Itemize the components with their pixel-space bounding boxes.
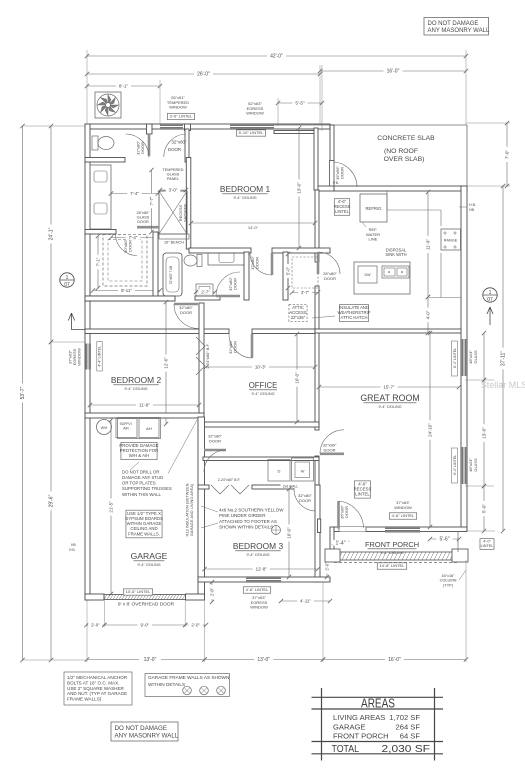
svg-text:D: D [278, 469, 281, 474]
svg-text:4'-4" LINTEL: 4'-4" LINTEL [98, 346, 102, 367]
dim 3-0 shower [160, 189, 186, 191]
svg-text:16'-0": 16'-0" [387, 69, 400, 75]
svg-text:DOOR: DOOR [233, 278, 238, 290]
office south wall [199, 422, 319, 427]
svg-text:(NO ROOF: (NO ROOF [384, 148, 418, 155]
svg-text:4'-6" LINTEL: 4'-6" LINTEL [246, 587, 269, 592]
label 4-4 lintel left [97, 342, 102, 372]
svg-text:AND NUT. (TYP AT GARAGE: AND NUT. (TYP AT GARAGE [67, 691, 127, 696]
svg-text:DOOR: DOOR [168, 147, 181, 152]
section marker left 1/07 [60, 273, 74, 287]
kitchen west wall upper [315, 190, 319, 262]
svg-text:ANY MASONRY WALL: ANY MASONRY WALL [428, 28, 490, 34]
label 10-6 lintel [123, 589, 152, 595]
svg-text:DOOR: DOOR [340, 167, 345, 179]
water heater circle [97, 420, 112, 435]
svg-text:HB: HB [469, 208, 475, 212]
svg-text:LINTEL: LINTEL [355, 492, 370, 497]
air handler box [139, 419, 159, 438]
wall below slab / kitchen north exterior wall [334, 186, 467, 191]
garage south wall left jamb [85, 594, 104, 600]
svg-text:FRONT PORCH: FRONT PORCH [365, 540, 419, 549]
svg-text:11'-9": 11'-9" [425, 239, 430, 250]
svg-text:LIVING AREAS: LIVING AREAS [333, 713, 385, 722]
dim 3-7 bath [196, 291, 215, 293]
svg-text:9'-4" CEILING: 9'-4" CEILING [124, 387, 147, 391]
svg-text:DOOR: DOOR [180, 310, 192, 315]
slab interior wall step [274, 131, 317, 134]
slab west wall with 36x96 door [330, 125, 334, 161]
window 37x63 egress bedroom3 [246, 577, 281, 582]
svg-text:A/H: A/H [146, 427, 152, 431]
svg-text:ANY MASONRY WALL: ANY MASONRY WALL [115, 733, 179, 740]
porch east edge [457, 531, 459, 552]
window 37x63 great room south [385, 527, 420, 532]
svg-text:2'-0": 2'-0" [91, 622, 100, 627]
svg-text:32"x80": 32"x80" [171, 140, 187, 145]
dim 5-0 right [483, 486, 485, 531]
svg-text:07: 07 [64, 282, 70, 288]
girder symbol circle [272, 526, 281, 535]
svg-text:3'-0": 3'-0" [169, 187, 178, 192]
36x96 door to slab leaf [330, 161, 335, 187]
svg-text:4'-6" LINTEL: 4'-6" LINTEL [392, 513, 415, 518]
svg-text:FRAME WALLS): FRAME WALLS) [67, 697, 102, 702]
dim 4-0 kitchen [427, 297, 429, 333]
svg-text:DOOR: DOOR [137, 220, 149, 224]
bedroom3 door leaf [315, 489, 318, 511]
dim 7-0 right slab [506, 123, 508, 186]
svg-text:DW: DW [365, 273, 372, 277]
svg-text:7'-7": 7'-7" [149, 196, 154, 205]
svg-text:HB: HB [71, 543, 76, 547]
svg-text:32"x60" TUB: 32"x60" TUB [169, 265, 173, 285]
note gypsum boards [126, 510, 162, 538]
hall south wall / bedroom3 north wall [198, 485, 209, 489]
svg-text:W/H: W/H [101, 426, 108, 430]
wall corner below slab door [317, 186, 334, 191]
svg-text:GARAGE: GARAGE [333, 722, 366, 731]
master bath north door arc [164, 134, 187, 157]
kitchen island [354, 262, 410, 294]
master bath tub [163, 253, 182, 296]
svg-text:DO NOT DAMAGE: DO NOT DAMAGE [115, 725, 168, 732]
vanity sink 1 [94, 171, 107, 182]
porch column right [452, 549, 468, 562]
svg-text:2-24"x80" B.F.: 2-24"x80" B.F. [218, 478, 241, 482]
dim 12-6 bedroom2 [165, 302, 167, 424]
porch slab dashed edge line [334, 562, 458, 564]
svg-text:DO NOT DRILL OR: DO NOT DRILL OR [122, 469, 159, 474]
WC toilet bowl [98, 137, 114, 150]
svg-text:BEDROOM 2: BEDROOM 2 [111, 375, 162, 385]
right exterior wall [461, 186, 467, 531]
bedroom2 door leaf [174, 303, 198, 306]
bedroom3 south wall [198, 577, 330, 582]
svg-text:LINE: LINE [369, 237, 378, 242]
dim 3-7 pantry [292, 292, 318, 294]
window 37x63 egress bedroom2 [86, 344, 91, 370]
svg-text:BOLTS AT 16" O.C. MAX.: BOLTS AT 16" O.C. MAX. [67, 680, 119, 685]
wall below great room door [315, 456, 319, 485]
svg-text:12'-8": 12'-8" [256, 566, 268, 571]
svg-text:264 SF: 264 SF [396, 722, 421, 731]
svg-text:DOOR: DOOR [128, 240, 133, 252]
WC door jamb stub [147, 124, 153, 134]
bedroom1 west wall [186, 158, 191, 250]
WC door leaf [148, 134, 151, 156]
pantry door 28x80 opening jamb [315, 286, 319, 333]
dim 21-5 garage [110, 420, 112, 594]
closet door leaf [137, 226, 159, 229]
leader damage protection [130, 462, 139, 470]
svg-text:7'-4": 7'-4" [129, 235, 138, 240]
office east wall / great room west wall [315, 329, 319, 430]
svg-text:5'-5": 5'-5" [295, 101, 305, 106]
outer wall top (master suite / bedroom 1) [85, 124, 330, 129]
svg-text:16" BENCH: 16" BENCH [164, 241, 184, 245]
svg-text:9'-4" CEILING: 9'-4" CEILING [233, 196, 256, 200]
dim 5-5 top [278, 102, 322, 104]
svg-text:37'-11": 37'-11" [501, 351, 507, 366]
areas table [312, 696, 444, 698]
svg-text:9'-4" CEILING: 9'-4" CEILING [251, 392, 274, 396]
svg-text:10'-0": 10'-0" [294, 372, 299, 384]
dim 13-0 bottom bedroom3 [205, 659, 324, 661]
svg-text:2,030 SF: 2,030 SF [382, 744, 431, 755]
front porch left wall [330, 527, 334, 554]
section marker right 1/07 [483, 288, 497, 302]
hall wall main horizontal [85, 329, 199, 334]
svg-text:9'-4" CEILING: 9'-4" CEILING [246, 553, 269, 557]
dim 15-7 great room [319, 386, 459, 388]
leader attic [312, 316, 335, 318]
dim 14-0 bedroom1 [191, 222, 315, 224]
master bath door jamb [185, 124, 191, 131]
great room north wall end [315, 329, 461, 333]
note box garage frame walls [145, 674, 230, 697]
garage overhead door hatched [104, 595, 186, 600]
svg-text:53'-7": 53'-7" [20, 386, 26, 399]
note box mechanical anchor bolts [64, 672, 132, 705]
dim 37-11 right [502, 186, 504, 531]
svg-text:LINTEL: LINTEL [335, 209, 350, 214]
svg-text:GLASS: GLASS [167, 173, 180, 177]
svg-text:6'-4" LINTEL: 6'-4" LINTEL [453, 348, 457, 368]
svg-text:22"x36": 22"x36" [291, 315, 306, 320]
foyer west wall [318, 519, 321, 533]
svg-text:7'-1": 7'-1" [95, 257, 100, 266]
svg-text:9'-4" CEILING: 9'-4" CEILING [380, 551, 403, 555]
svg-text:6'-4" LINTEL: 6'-4" LINTEL [453, 455, 457, 475]
svg-text:SHOWN WITHIN DETAILS: SHOWN WITHIN DETAILS [219, 524, 273, 529]
bifold closet office vertical [196, 337, 205, 375]
svg-text:ATTIC HATCH: ATTIC HATCH [340, 315, 367, 320]
bedroom3 door arc [294, 489, 316, 511]
svg-text:11'-8": 11'-8" [139, 402, 150, 407]
svg-text:5'-0": 5'-0" [482, 504, 487, 514]
great room hall door leaf [320, 452, 344, 455]
svg-text:16'-0": 16'-0" [388, 657, 401, 663]
svg-text:1'-4": 1'-4" [336, 541, 346, 547]
range [441, 229, 461, 250]
closet wall south [85, 296, 175, 301]
master bath north door leaf [186, 134, 189, 157]
svg-text:GLASS: GLASS [473, 458, 478, 472]
svg-text:PANEL: PANEL [167, 177, 179, 181]
svg-text:WINDOW: WINDOW [394, 505, 412, 510]
kitchen counter right edge [440, 253, 442, 298]
dim 4-11 bedroom3 window [281, 600, 330, 602]
svg-text:13'-0": 13'-0" [257, 657, 270, 663]
svg-text:WINDOW: WINDOW [77, 348, 82, 366]
bedroom1 entry door arc [250, 253, 272, 275]
svg-text:OFFICE: OFFICE [249, 381, 278, 390]
svg-text:10'-0": 10'-0" [286, 527, 291, 539]
svg-text:3'-6" LINTEL: 3'-6" LINTEL [170, 114, 193, 119]
svg-text:2'-7": 2'-7" [201, 289, 210, 294]
pantry west wall [283, 252, 288, 300]
svg-text:CONCRETE SLAB: CONCRETE SLAB [377, 135, 435, 142]
bath2 east wall [244, 252, 249, 300]
svg-text:9'-0": 9'-0" [140, 622, 149, 627]
svg-text:WITHIN DETAILS: WITHIN DETAILS [148, 682, 185, 687]
svg-text:14'-0": 14'-0" [248, 225, 259, 230]
svg-text:TOTAL: TOTAL [332, 744, 360, 755]
svg-text:2-24"x80" B.F.: 2-24"x80" B.F. [205, 343, 210, 368]
svg-text:8'-1": 8'-1" [119, 84, 129, 89]
closet east wall [153, 232, 158, 301]
extension lines right [466, 122, 510, 124]
vanity sink 2 [94, 203, 107, 214]
svg-text:W/H & A/H: W/H & A/H [129, 453, 150, 458]
dim 7-7 bath vertical [151, 170, 153, 232]
svg-text:WITHIN THIS WALL: WITHIN THIS WALL [122, 492, 162, 497]
bath2 south wall with door [195, 296, 220, 300]
svg-text:1: 1 [66, 275, 69, 281]
svg-text:9'-4" CEILING: 9'-4" CEILING [137, 563, 160, 567]
bedroom2 door arc [174, 304, 199, 329]
dim 5-6 porch [430, 538, 459, 540]
extension lines left [23, 125, 86, 127]
svg-text:TEMPERED: TEMPERED [162, 168, 183, 172]
porch column left [325, 549, 340, 562]
svg-text:AIR: AIR [123, 427, 129, 431]
dim 5-0 pantry [287, 254, 289, 288]
svg-text:GARAGE AND LIVING AREA): GARAGE AND LIVING AREA) [189, 483, 194, 536]
dim 11-9 kitchen [427, 192, 429, 297]
dim 7-4 bath [111, 237, 155, 239]
svg-text:GARAGE FRAME WALLS AS SHOWN: GARAGE FRAME WALLS AS SHOWN [148, 675, 229, 680]
svg-text:2'-0": 2'-0" [191, 622, 200, 627]
svg-text:5'-6": 5'-6" [440, 537, 450, 543]
svg-text:2'-8": 2'-8" [209, 587, 214, 596]
svg-text:BEDROOM 3: BEDROOM 3 [233, 541, 284, 551]
window 48x24 glass great room lower [461, 447, 467, 484]
svg-text:13'-0": 13'-0" [482, 427, 487, 439]
svg-text:1/2" MECHANICAL ANCHOR: 1/2" MECHANICAL ANCHOR [67, 675, 128, 680]
bath2 door arc [216, 272, 240, 296]
refrigerator [360, 194, 387, 222]
svg-text:5'-0": 5'-0" [285, 266, 290, 275]
bedroom2 east wall / office west wall [199, 303, 204, 427]
svg-text:DOOR: DOOR [209, 438, 221, 443]
svg-text:10'-6" LINTEL: 10'-6" LINTEL [126, 589, 152, 594]
dim 10-3 office [206, 366, 315, 368]
svg-text:13'-0": 13'-0" [296, 182, 301, 194]
island dishwasher [358, 266, 377, 283]
bedroom1 east wall [314, 128, 318, 190]
svg-text:H.B.: H.B. [469, 203, 476, 207]
leader girder left [201, 506, 218, 512]
shower enclosure [159, 191, 187, 234]
svg-text:DOOR: DOOR [299, 498, 311, 503]
shower bench [159, 234, 189, 239]
section marker left arrow [68, 313, 85, 330]
dim 24-10 great room [429, 333, 431, 527]
svg-text:1,702 SF: 1,702 SF [389, 713, 420, 722]
section marker right arrow [487, 307, 493, 325]
great room south wall [334, 527, 467, 532]
dim 29-6 left [50, 342, 52, 660]
svg-text:GLASS: GLASS [473, 350, 478, 364]
svg-text:4'-0": 4'-0" [483, 540, 491, 544]
svg-text:GREAT ROOM: GREAT ROOM [360, 393, 419, 403]
dim 11-8 bedroom2 [90, 404, 199, 406]
dim garage door 8-0 [104, 624, 185, 626]
svg-text:10'-3": 10'-3" [255, 364, 267, 369]
attic access dashed box [289, 304, 307, 321]
dim 16-0 bottom [323, 659, 466, 661]
closet north wall [85, 230, 116, 235]
supply air box [116, 419, 137, 438]
garage frame wall symbols [183, 686, 192, 695]
svg-text:DOOR: DOOR [324, 447, 336, 452]
svg-text:4x6 No.2 SOUTHERN YELLOW: 4x6 No.2 SOUTHERN YELLOW [219, 508, 284, 513]
svg-text:LINTEL: LINTEL [481, 544, 494, 548]
svg-text:REFRIG.: REFRIG. [366, 206, 383, 211]
pantry door arc [318, 252, 340, 274]
bedroom2 north wall [85, 296, 175, 301]
concrete slab outline [274, 124, 467, 126]
bath2 vanity counter [208, 249, 245, 265]
svg-text:2'-0": 2'-0" [324, 562, 329, 571]
svg-text:GARAGE: GARAGE [131, 551, 168, 561]
svg-text:28"x80": 28"x80" [136, 211, 150, 215]
dim 7-1 closet [97, 236, 99, 288]
svg-text:DOOR: DOOR [255, 257, 260, 269]
great room hall door arc [320, 430, 344, 454]
island sink double bowl [382, 266, 409, 278]
shower X line 1 [159, 191, 187, 234]
svg-text:24'-10": 24'-10" [427, 423, 432, 437]
office door arc [229, 334, 252, 358]
svg-text:FRAME WALLS.: FRAME WALLS. [128, 531, 160, 536]
label 6-4 lintel lower [452, 448, 458, 483]
svg-text:WINDOW: WINDOW [250, 605, 268, 610]
left exterior wall [85, 124, 90, 600]
garage entry door arc [204, 450, 226, 472]
WC toilet tank [92, 136, 98, 150]
dim garage door 2-0 b [185, 624, 206, 626]
svg-text:FRONT PORCH: FRONT PORCH [333, 732, 389, 741]
interior wall WC south [85, 158, 125, 163]
bedroom1 south wall [189, 248, 251, 253]
svg-text:OR TOP PLATES: OR TOP PLATES [122, 481, 156, 486]
dryer box [268, 460, 290, 482]
label 4-0 lintel porch [480, 539, 494, 550]
office door leaf [251, 334, 254, 358]
svg-text:7'-4": 7'-4" [130, 191, 139, 196]
dim 13-0 bottom garage [87, 659, 205, 661]
label egress window bedroom3 [243, 587, 270, 593]
window 26x51 tempered [160, 124, 183, 129]
pantry door leaf [317, 252, 320, 274]
dim 1-4 foyer [334, 542, 347, 544]
master vanity counter [90, 165, 111, 229]
kitchen counter top edge [386, 191, 388, 210]
svg-text:4'-0": 4'-0" [425, 310, 430, 319]
label 2x6 wall [281, 483, 301, 488]
pantry dashed shelves [292, 257, 318, 288]
window 48x24 glass great room upper [461, 339, 467, 376]
bath2 sink [219, 252, 234, 263]
note box do not damage bottom [111, 722, 178, 741]
svg-text:14'-8" LINTEL: 14'-8" LINTEL [380, 563, 406, 568]
attic fan [95, 92, 121, 118]
closet door arc [115, 234, 137, 256]
front door arc [339, 501, 364, 528]
bath vanity small [196, 284, 213, 296]
porch slab hatched edge [334, 552, 458, 560]
extension lines top [86, 50, 88, 124]
dim 8-11 closet [93, 290, 160, 292]
bedroom1 entry door leaf [271, 253, 274, 275]
washer box [292, 458, 314, 481]
svg-text:07: 07 [487, 297, 493, 303]
garage entry door leaf [204, 449, 226, 452]
svg-text:P.B.: P.B. [333, 181, 339, 185]
shower X line 2 [159, 191, 187, 234]
insulate attic hatch note [339, 304, 368, 321]
dim 2-0 foyer [326, 556, 328, 577]
dim 13-0 bedroom1 east [298, 128, 300, 248]
dim 26-0 top [87, 73, 320, 75]
svg-text:8'-11": 8'-11" [121, 288, 132, 293]
bedroom3 east wall [315, 485, 320, 582]
label 14-8 lintel [377, 563, 406, 569]
svg-text:24'-1": 24'-1" [49, 227, 55, 240]
recess lintel note foyer [354, 481, 370, 498]
dim top right inner [483, 333, 485, 380]
label 5-10 lintel [236, 130, 265, 136]
svg-text:12'-6": 12'-6" [163, 357, 168, 369]
svg-text:USE 2" SQUARE WASHER: USE 2" SQUARE WASHER [67, 686, 125, 691]
dim 10-0 bedroom3 [288, 489, 290, 577]
svg-text:ATTACHED TO FOOTER AS: ATTACHED TO FOOTER AS [219, 519, 277, 524]
bedroom2 south wall [85, 413, 204, 418]
dim garage door 2-0 [87, 624, 105, 626]
svg-text:SINK WITH: SINK WITH [385, 252, 406, 257]
dim 16-0 top [320, 70, 466, 72]
bath2 door leaf [216, 295, 240, 298]
svg-text:DAMAGE ANY STUD: DAMAGE ANY STUD [122, 475, 163, 480]
front door opening [339, 527, 366, 532]
front door 36x96 leaf [337, 501, 340, 529]
dim 2-8 bedroom3 window [211, 582, 213, 602]
dim 13-0 right [483, 380, 485, 486]
svg-text:W: W [301, 469, 305, 474]
